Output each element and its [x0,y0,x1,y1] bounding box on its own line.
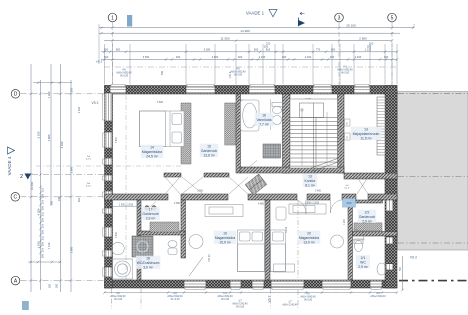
svg-text:Majapidamisruum: Majapidamisruum [353,132,380,136]
svg-text:290: 290 [41,229,45,234]
svg-text:1: 1 [111,15,114,21]
svg-text:Garderoob: Garderoob [359,215,375,219]
svg-text:300: 300 [70,87,74,92]
svg-text:18: 18 [146,257,150,261]
svg-text:2 690: 2 690 [116,231,118,237]
svg-text:290: 290 [41,253,45,258]
svg-text:3 680: 3 680 [47,134,51,141]
svg-text:310: 310 [41,199,45,204]
svg-text:14 900: 14 900 [240,29,250,33]
svg-text:16: 16 [262,114,266,118]
svg-text:2 200: 2 200 [259,55,266,59]
svg-text:200: 200 [176,55,181,59]
svg-text:1 980: 1 980 [70,246,74,253]
svg-text:6 280: 6 280 [204,47,211,51]
svg-text:2,9 m²: 2,9 m² [358,265,368,269]
svg-text:4 800: 4 800 [258,203,265,206]
svg-text:Vk 0,00: Vk 0,00 [236,306,245,309]
svg-text:Garderoob: Garderoob [142,212,158,216]
svg-text:Vannituba: Vannituba [256,118,271,122]
svg-text:3 000: 3 000 [197,191,203,193]
svg-text:Vk 0,00: Vk 0,00 [221,298,230,301]
svg-text:4 214: 4 214 [286,226,288,232]
svg-text:8,1 m²: 8,1 m² [305,183,315,187]
svg-text:D: D [14,92,18,98]
svg-text:1 300: 1 300 [77,106,81,113]
svg-text:Vk 0,00: Vk 0,00 [234,74,243,77]
svg-text:Vk 0,00: Vk 0,00 [114,298,123,301]
svg-text:500: 500 [56,283,59,288]
svg-text:11 500: 11 500 [220,36,230,40]
svg-text:11,5 m²: 11,5 m² [360,136,372,140]
svg-text:2: 2 [20,174,23,180]
svg-text:2 400: 2 400 [305,55,312,59]
svg-text:0,4 m: 0,4 m [344,188,349,190]
svg-text:290: 290 [41,193,45,198]
svg-text:300: 300 [384,55,389,59]
svg-text:C: C [13,195,17,201]
svg-text:310: 310 [41,211,45,216]
svg-text:VS 2: VS 2 [96,60,103,64]
svg-text:2/1: 2/1 [361,256,366,260]
svg-text:310: 310 [41,235,45,240]
svg-text:2 690: 2 690 [70,166,74,173]
svg-text:310: 310 [41,247,45,252]
svg-text:3,9 m²: 3,9 m² [143,265,153,269]
svg-text:200: 200 [238,55,243,59]
svg-text:0,4 m: 0,4 m [86,159,91,161]
svg-text:1 130: 1 130 [47,242,51,249]
svg-text:20: 20 [307,232,311,236]
svg-text:3 500: 3 500 [143,55,150,59]
svg-text:800: 800 [116,47,121,51]
svg-text:0,4 m: 0,4 m [86,186,91,188]
svg-text:5 400: 5 400 [116,136,118,142]
svg-text:Magamistuba: Magamistuba [142,150,162,154]
svg-text:VAADE 1: VAADE 1 [246,11,265,16]
svg-text:2 400: 2 400 [315,191,321,193]
svg-text:5 200: 5 200 [37,131,41,138]
svg-text:Garderoob: Garderoob [201,149,217,153]
svg-text:7,7 m²: 7,7 m² [259,122,269,126]
svg-text:Vk 0,00: Vk 0,00 [341,72,350,75]
svg-text:770: 770 [316,47,321,51]
svg-text:19: 19 [223,232,227,236]
svg-text:13,6 m²: 13,6 m² [203,153,215,157]
svg-text:270 (0): 270 (0) [209,254,211,262]
svg-text:AbS+3 242,40: AbS+3 242,40 [282,304,298,307]
svg-text:2 400: 2 400 [355,55,362,59]
svg-text:VS 2: VS 2 [410,256,417,260]
svg-text:310: 310 [41,187,45,192]
svg-text:500: 500 [161,70,164,75]
svg-text:290: 290 [41,205,45,210]
svg-text:WC/Dušširuum: WC/Dušširuum [137,261,160,265]
svg-text:17: 17 [149,208,153,212]
svg-text:290: 290 [77,197,81,202]
svg-text:15: 15 [207,145,211,149]
svg-text:VS 2: VS 2 [268,295,272,302]
svg-text:290: 290 [41,217,45,222]
svg-text:13,9 m²: 13,9 m² [303,240,315,244]
svg-text:2 600: 2 600 [174,202,181,205]
svg-text:5: 5 [391,15,394,21]
svg-text:VAADE 4: VAADE 4 [7,156,12,175]
svg-text:AbS+3 842,40: AbS+3 842,40 [370,295,386,298]
svg-text:Vk 0,00: Vk 0,00 [120,75,129,78]
svg-text:3 500: 3 500 [157,101,164,104]
svg-text:810: 810 [266,47,271,51]
svg-text:14: 14 [150,146,154,150]
svg-text:Vk -0,20: Vk -0,20 [171,298,181,301]
svg-text:2 600: 2 600 [212,55,219,59]
svg-text:20,6: 20,6 [347,202,352,205]
svg-text:2/2: 2/2 [365,211,370,215]
svg-text:25 100: 25 100 [346,24,356,28]
svg-text:290: 290 [41,241,45,246]
svg-text:600: 600 [254,47,259,51]
svg-text:10 402: 10 402 [30,181,34,190]
svg-text:1 123: 1 123 [365,47,372,51]
svg-text:3 180: 3 180 [60,141,64,148]
svg-text:2 600: 2 600 [359,36,367,40]
svg-text:WC: WC [360,260,366,264]
svg-text:Magamistuba: Magamistuba [215,236,235,240]
svg-text:1 500 (1 200): 1 500 (1 200) [119,204,133,207]
svg-text:600: 600 [331,47,336,51]
svg-text:24,5 m²: 24,5 m² [146,154,158,158]
svg-text:1 300: 1 300 [47,91,51,98]
svg-text:Magamistuba: Magamistuba [299,236,319,240]
svg-text:200: 200 [330,55,335,59]
svg-text:1 200: 1 200 [344,218,346,224]
svg-text:Koridor: Koridor [305,179,317,183]
svg-text:Vk 0,00: Vk 0,00 [304,299,313,302]
svg-text:VS 2: VS 2 [92,101,99,105]
svg-text:500: 500 [49,283,52,288]
svg-text:290: 290 [51,200,54,205]
svg-text:2,9 m²: 2,9 m² [146,216,156,220]
svg-text:310: 310 [41,223,45,228]
svg-text:2,9 m²: 2,9 m² [362,219,372,223]
svg-text:15,9 m²: 15,9 m² [219,240,231,244]
svg-text:3: 3 [338,15,341,21]
svg-text:13: 13 [308,175,312,179]
svg-text:200: 200 [282,55,287,59]
svg-text:13: 13 [364,128,368,132]
